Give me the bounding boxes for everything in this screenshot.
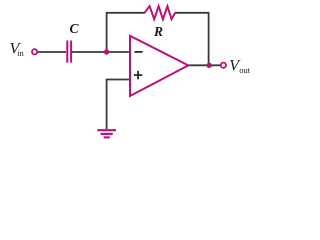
wire: top feedback rail left of resistor [106,12,145,14]
wire: Vin terminal to capacitor left plate [38,51,67,53]
svg-text:out: out [239,65,251,75]
wire: op-amp output to Vout terminal [188,64,220,66]
wire: capacitor right plate to op-amp inverting input [72,51,130,53]
terminal: Vout open circle [221,63,226,68]
op-amp minus sign [134,51,142,53]
op-amp plus sign [134,74,142,76]
terminal: Vin open circle [32,49,37,54]
node: output junction dot [207,63,212,68]
wire: right vertical of feedback loop down to output node [208,12,210,65]
wire: vertical down to ground [106,79,108,129]
wire: noninverting input [107,79,130,81]
svg-text:R: R [153,24,163,39]
capacitor C plates [66,41,68,63]
wire: vertical from input node up to feedback rail [106,13,108,52]
svg-text:C: C [70,21,80,36]
op-amp U1 triangle [130,36,188,96]
svg-text:in: in [17,48,24,58]
node: input junction dot [104,49,109,54]
wire: top feedback rail right of resistor [175,12,209,14]
resistor R (zigzag) [145,6,176,19]
ground [97,129,116,131]
